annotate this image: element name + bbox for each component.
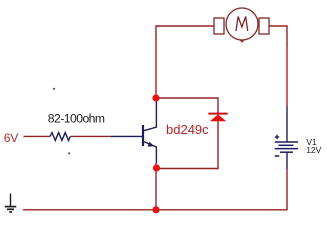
- svg-text:bd249c: bd249c: [166, 122, 209, 137]
- svg-text:12V: 12V: [306, 145, 321, 155]
- svg-text:6V: 6V: [4, 131, 19, 145]
- svg-text:82-100ohm: 82-100ohm: [48, 111, 105, 125]
